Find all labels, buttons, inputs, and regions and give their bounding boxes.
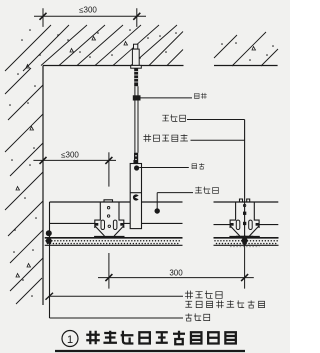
gypsum board band	[45, 237, 279, 239]
title: circled 1	[62, 331, 78, 347]
anchor bolt embedded in slab	[131, 44, 142, 68]
label: diaojian leader	[139, 167, 189, 169]
right hat channel (mid keel section)	[229, 199, 259, 237]
concrete slab hatch (right segment)	[214, 32, 278, 66]
svg-text:1: 1	[67, 334, 73, 346]
concrete slab hatch (left segment)	[5, 25, 183, 71]
board stipple dots	[46, 241, 278, 244]
dimension 1 (top): line, extensions, ticks	[34, 8, 146, 27]
main keel end vertical / label drop line at wall	[49, 202, 51, 318]
dimension 2 (mid-left): line, extensions, ticks	[33, 152, 116, 186]
ceiling slab soffit line	[43, 65, 278, 67]
hanger (diao jian)	[134, 161, 137, 164]
bottom label leaders	[50, 296, 184, 318]
left hat channel (cross furring + clip)	[94, 200, 124, 237]
title text (bold fake glyphs)	[86, 331, 236, 345]
edge keel screws at wall	[46, 230, 52, 236]
svg-text:≤300: ≤300	[61, 150, 79, 159]
dimension 3 (bottom 300): line, extensions, ticks	[98, 247, 254, 289]
main keel top line	[50, 201, 279, 203]
concrete wall hatch	[5, 68, 43, 304]
zhonglonggu	[162, 115, 169, 121]
diaojian	[192, 164, 197, 169]
label: zhonglonggu leader	[187, 119, 245, 121]
diaojin	[194, 93, 199, 98]
svg-text:≤300: ≤300	[79, 6, 97, 15]
long right leader/extension vertical	[244, 120, 246, 247]
rod adjuster dark segment	[134, 153, 138, 164]
zhimianshigaoban	[143, 134, 151, 142]
bianlonggu	[185, 313, 192, 321]
label: zhimianshigaoban leader	[191, 139, 245, 141]
rod leader square node	[133, 95, 141, 100]
zhulonggu	[195, 187, 202, 193]
label: diaojin (hanging rod) leader	[141, 97, 193, 99]
hatch triangles	[16, 37, 256, 278]
CJK label texts (approximated glyphs)	[143, 93, 264, 321]
label: zhulonggu leader	[157, 193, 193, 209]
hatch aggregate dots	[9, 29, 274, 297]
wall face line	[42, 66, 44, 306]
title underline	[55, 350, 245, 352]
mid keel line	[50, 223, 279, 224]
hengchenglonggu	[185, 291, 193, 299]
hanging rod (threaded)	[134, 68, 138, 86]
shigaoban jiefeng chu anzhuang	[185, 301, 192, 307]
svg-text:300: 300	[169, 269, 183, 278]
